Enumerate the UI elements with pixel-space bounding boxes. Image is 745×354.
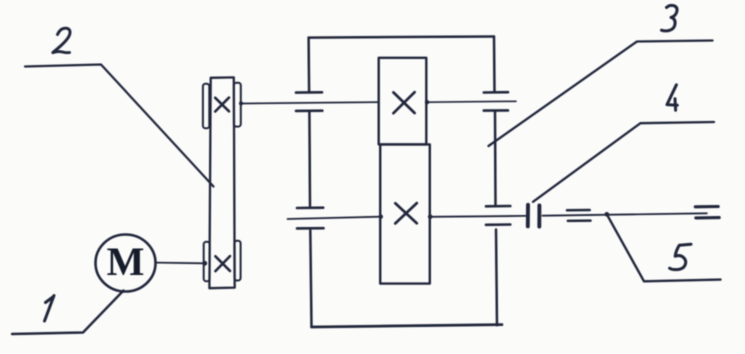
bearing B5 marks on output shaft: [567, 210, 591, 221]
belt contour (belt drive 2): [209, 77, 234, 288]
pulley P2 cross: [215, 256, 230, 271]
node: output shaft at gear G2 left: [379, 215, 383, 219]
gearbox housing left wall upper: [307, 38, 310, 92]
node: top shaft at gear G1: [425, 100, 429, 104]
leader line 4: [533, 122, 714, 202]
leader line 5: [607, 214, 721, 281]
gearbox housing right wall lower: [496, 230, 497, 326]
gear G2 cross: [395, 203, 417, 223]
pulley side bar bottom-right: [234, 241, 240, 281]
gear G2 rect: [380, 144, 430, 283]
coupling C1 bar B: [537, 205, 541, 226]
wire: output shaft gear to coupling: [430, 215, 526, 218]
gearbox housing top edge: [309, 37, 494, 38]
leader line 3: [489, 41, 713, 147]
gearbox housing bottom edge: [312, 325, 503, 327]
pulley side bar bottom-left: [204, 242, 210, 282]
wire: output shaft after coupling: [543, 213, 707, 215]
wire: motor shaft to belt pulley: [156, 262, 205, 265]
gearbox housing left wall mid: [308, 112, 311, 206]
gear G1 rect: [379, 58, 427, 145]
leader line 2: [25, 65, 214, 187]
bearing B6 marks at shaft end: [695, 207, 719, 218]
pulley side bar top-left: [203, 84, 209, 129]
wire: input shaft pulley to gearbox: [241, 102, 379, 103]
wire: top shaft inside to right wall: [427, 100, 517, 103]
node: output shaft at gear G2 right: [428, 214, 433, 219]
bearing B4 right-bottom ticks: [486, 206, 510, 225]
wire: output shaft left stub: [288, 217, 381, 219]
label 2: [53, 28, 70, 52]
node: shaft at pulley bar: [239, 101, 243, 105]
label 5: [670, 244, 691, 269]
node: leader-5 junction on shaft: [605, 212, 610, 217]
motor M1 circle: [96, 235, 156, 292]
gearbox housing right wall mid: [494, 112, 497, 205]
gearbox housing right wall upper: [493, 37, 496, 92]
gearbox housing left wall lower: [310, 231, 311, 328]
pulley P1 cross: [215, 98, 229, 112]
coupling C1 bar A: [526, 205, 530, 227]
gear G1 cross: [393, 92, 414, 113]
node: shaft-belt junction: [202, 261, 207, 266]
pulley side bar top-right: [234, 83, 241, 127]
leader line 1: [12, 291, 124, 335]
label 3: [662, 5, 678, 31]
svg-text:M: M: [107, 239, 145, 284]
bearing B1 left-top ticks: [296, 92, 322, 111]
bearing B2 right-top ticks: [484, 92, 508, 110]
label 1: [45, 296, 55, 322]
bearing B3 left-bottom ticks: [297, 208, 324, 229]
label 4: [667, 85, 677, 110]
